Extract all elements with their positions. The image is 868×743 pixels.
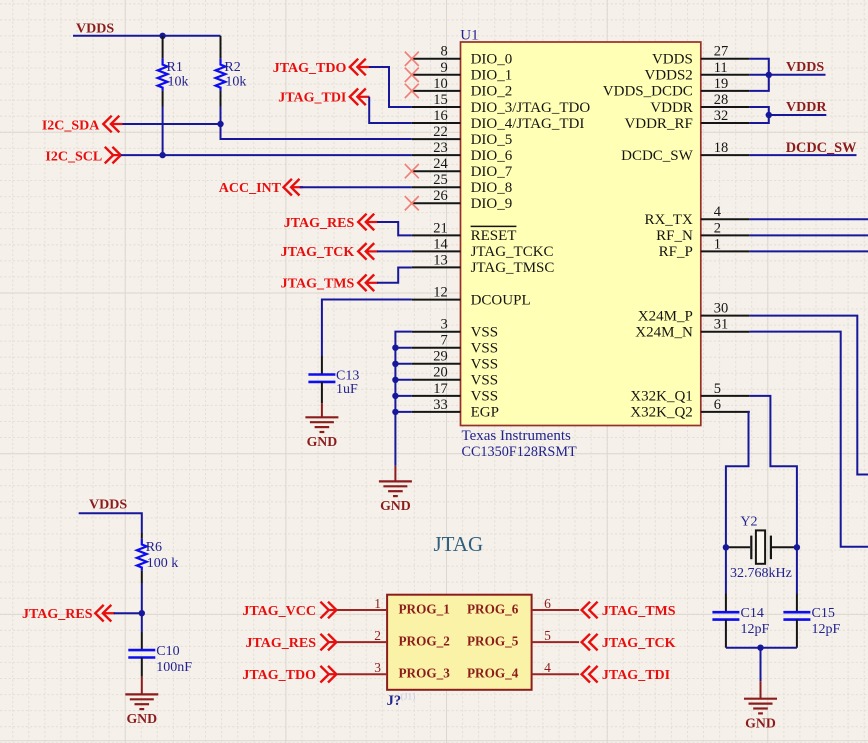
svg-text:17: 17 [433,381,448,397]
junction at R1 top [159,33,165,39]
wire VSS pin row 21 [395,395,411,397]
label C13 [336,368,359,383]
svg-text:VSS: VSS [471,389,499,405]
junction VDDR [766,112,772,118]
svg-text:1uF: 1uF [336,382,358,397]
svg-text:JTAG_TDI: JTAG_TDI [602,668,670,683]
svg-text:20: 20 [433,365,448,381]
svg-text:JTAG_TMS: JTAG_TMS [281,277,355,292]
wire R1 bottom to I2C_SCL net [162,107,164,156]
connector pin 1 PROG_1 (left) [337,596,450,616]
svg-text:VDDS: VDDS [786,60,824,75]
label Y2 [740,515,757,530]
svg-text:R1: R1 [167,60,183,75]
svg-text:VSS: VSS [471,357,499,373]
svg-text:JTAG_TCKC: JTAG_TCKC [471,244,554,260]
svg-text:DIO_4/JTAG_TDI: DIO_4/JTAG_TDI [471,116,585,132]
pin 29 VSS (left) [412,349,498,373]
op-amp U1 body (CC1350 MCU rectangle) [461,42,701,426]
ground below VSS bus [379,466,412,513]
wire X24M_P to right edge [750,316,868,475]
svg-text:JTAG_TMSC: JTAG_TMSC [471,260,555,276]
label C15 [812,606,835,621]
svg-text:RF_N: RF_N [656,228,693,244]
svg-text:DIO_3/JTAG_TDO: DIO_3/JTAG_TDO [471,100,591,116]
no-connect X on left pin row 1 [405,68,419,82]
pin 26 DIO_9 (left) [412,188,512,212]
svg-text:33: 33 [433,397,448,413]
wire VDDS to R6 [79,513,142,533]
svg-text:DIO_9: DIO_9 [471,196,513,212]
svg-text:18: 18 [714,140,729,156]
svg-text:DIO_8: DIO_8 [471,180,513,196]
port JTAG_RES (mid) [284,214,378,231]
svg-text:PROG_3: PROG_3 [399,666,451,681]
junction I2C_SDA / R2 [217,121,223,127]
wire I2C_SCL to pin 23 [121,154,412,156]
wire RF_P to edge [750,250,868,252]
wire R2 bottom to I2C_SDA net [220,107,222,125]
svg-text:VDDS: VDDS [76,22,114,37]
label R6 [146,540,162,555]
wire JTAG_TCK to pin 14 [377,250,412,252]
svg-text:JTAG_TDI: JTAG_TDI [278,91,346,106]
svg-text:GND: GND [126,711,157,726]
connector pin 2 PROG_2 (left) [337,628,450,648]
wire JTAG_RES to pin 21 [377,222,412,235]
svg-text:24: 24 [433,156,448,172]
svg-text:JTAG_VCC: JTAG_VCC [242,604,316,619]
power label DCDC_SW [786,140,857,156]
no-connect X on left pin row 9 [405,196,419,210]
label R2 [224,60,240,75]
pin 25 DIO_8 (left) [412,172,512,196]
svg-text:25: 25 [433,172,448,188]
svg-text:X32K_Q1: X32K_Q1 [630,389,693,405]
pin 21 RESET (left) [412,220,517,244]
port JTAG_TDO [273,59,370,76]
port JTAG_TMS [582,602,676,619]
label C14 [741,606,764,621]
wire VSS pin row 19 [395,363,411,365]
svg-text:JTAG_TDO: JTAG_TDO [273,61,347,76]
wire JTAG_TMS to pin 13 [377,267,412,282]
power label VDDR [786,100,827,115]
ground below C10 [125,677,158,726]
svg-text:JTAG_TCK: JTAG_TCK [281,245,355,260]
capacitor C15 [783,612,810,648]
wire RF_N to edge [750,234,868,236]
no-connect X on left pin row 2 [405,84,419,98]
svg-text:6: 6 [544,596,551,611]
power label VDDS (right) [786,60,824,75]
pin 28 VDDR (right) [650,92,749,116]
svg-text:11: 11 [714,60,728,76]
svg-text:32.768kHz: 32.768kHz [730,566,792,581]
svg-text:PROG_5: PROG_5 [467,634,519,649]
svg-text:13: 13 [433,252,448,268]
resistor R1 [158,36,168,107]
wire JTAG_TDI to pin 16 [369,97,412,123]
svg-text:JTAG_TDO: JTAG_TDO [242,668,316,683]
pin 6 X32K_Q2 (right) [630,397,749,421]
svg-text:DIO_2: DIO_2 [471,84,513,100]
svg-text:J?: J? [387,693,402,709]
label C10 [156,644,179,659]
pin 4 RX_TX (right) [644,204,749,228]
pin 10 DIO_2 (left) [412,76,512,100]
svg-text:I2C_SDA: I2C_SDA [42,118,100,133]
wire R6 to junction [141,583,143,613]
wire VSS bus vertical [395,332,411,466]
svg-text:19: 19 [714,76,729,92]
svg-text:32: 32 [714,108,729,124]
svg-text:2: 2 [374,628,381,643]
svg-text:14: 14 [433,236,448,252]
pin 16 DIO_4/JTAG_TDI (left) [412,108,585,132]
svg-text:VDDR: VDDR [650,100,693,116]
pin 7 VSS (left) [412,333,498,357]
svg-text:5: 5 [714,381,721,397]
svg-text:PROG_6: PROG_6 [467,601,519,616]
svg-text:VSS: VSS [471,341,499,357]
ground below C13 [305,403,338,449]
pin 30 X24M_P (right) [638,301,750,325]
svg-text:DCOUPL: DCOUPL [471,292,531,308]
wire ACC_INT to pin 25 [300,186,412,188]
svg-text:DIO_6: DIO_6 [471,148,513,164]
port JTAG_TCK [582,634,676,651]
pin 17 VSS (left) [412,381,498,405]
svg-text:VDDS: VDDS [652,52,693,68]
wire VSS pin row 18 [395,347,411,349]
svg-text:DIO_5: DIO_5 [471,132,513,148]
svg-text:22: 22 [433,124,448,140]
svg-text:Y2: Y2 [740,515,757,530]
connector pin 6 PROG_6 (right) [467,596,579,616]
svg-text:7: 7 [440,333,447,349]
svg-text:X24M_P: X24M_P [638,308,693,324]
svg-text:GND: GND [745,715,776,730]
pin 3 VSS (left) [412,317,498,341]
svg-text:C15: C15 [812,606,835,621]
wire VSS pin row 22 [395,411,411,413]
svg-text:10k: 10k [168,75,189,90]
svg-text:1: 1 [714,236,721,252]
svg-text:23: 23 [433,140,448,156]
svg-text:30: 30 [714,301,729,317]
svg-text:PROG_4: PROG_4 [467,666,519,681]
crystal Y2 [726,530,797,563]
svg-text:5: 5 [544,628,551,643]
pin 11 VDDS2 (right) [644,60,749,84]
ground below crystal caps [744,681,777,730]
wire DCOUPL pin 12 to C13 [322,300,412,356]
connector pin 5 PROG_5 (right) [467,628,579,648]
svg-text:2: 2 [714,220,721,236]
junction R6/C10/JTAG_RES [139,610,145,616]
power label VDDS (top left) [76,22,114,37]
svg-text:4: 4 [544,660,551,675]
port I2C_SCL [45,147,121,165]
port JTAG_TDI [278,89,369,106]
svg-text:JTAG_TMS: JTAG_TMS [602,604,676,619]
wire crystal right column down to C15 [796,547,798,612]
junction I2C_SCL / R1 [159,152,165,158]
capacitor C13 [308,356,335,403]
svg-text:27: 27 [714,44,729,60]
svg-text:9: 9 [440,60,447,76]
pin 19 VDDS_DCDC (right) [603,76,750,100]
svg-text:JTAG_RES: JTAG_RES [284,216,355,231]
svg-text:JTAG_RES: JTAG_RES [245,636,316,651]
label 10k (R1) [168,75,189,90]
wire VDDS cluster (pins 27/11/19) [750,59,826,91]
junction VDDS [766,72,772,78]
svg-text:4: 4 [714,204,722,220]
resistor R2 [216,36,226,107]
resistor R6 [137,533,147,583]
svg-text:100nF: 100nF [156,660,192,675]
svg-text:VDDS: VDDS [89,498,127,513]
label 10k (R2) [225,75,246,90]
svg-text:12pF: 12pF [741,622,770,637]
capacitor C10 [128,632,155,677]
no-connect X on left pin row 0 [405,52,419,66]
wire crystal left column down to C14 [725,547,727,612]
svg-text:RX_TX: RX_TX [644,212,693,228]
power label VDDS (bottom left) [89,498,127,513]
pin 24 DIO_7 (left) [412,156,513,180]
svg-text:VSS: VSS [471,373,499,389]
port JTAG_VCC [242,602,337,619]
junction VSS row 20 [392,377,398,383]
svg-text:PROG_1: PROG_1 [399,601,450,616]
wire I2C_SDA drop to pin 22 [221,124,412,139]
junction crystal left [723,544,729,550]
svg-text:U1: U1 [460,28,478,44]
svg-text:DIO_1: DIO_1 [471,68,513,84]
svg-text:JTAG_RES: JTAG_RES [22,607,93,622]
svg-text:DIO_0: DIO_0 [471,52,513,68]
label R1 [167,60,183,75]
wire X24M_N to right edge [750,332,868,547]
connector pin 4 PROG_4 (right) [467,660,579,680]
label 1uF [336,382,358,397]
svg-text:15: 15 [433,92,448,108]
capacitor C14 [712,612,739,648]
svg-text:DIO_7: DIO_7 [471,164,513,180]
junction crystal right [794,544,800,550]
designator U1 [460,28,478,44]
label 100nF [156,660,192,675]
svg-text:26: 26 [433,188,448,204]
svg-text:28: 28 [714,92,729,108]
svg-text:X24M_N: X24M_N [635,325,693,341]
svg-text:PROG_2: PROG_2 [399,634,451,649]
label 12pF (C14) [741,622,770,637]
label 12pF (C15) [812,622,841,637]
label 32.768kHz [730,566,792,581]
designator J? [387,692,416,710]
svg-text:10: 10 [433,76,448,92]
pin 31 X24M_N (right) [635,317,749,341]
wire VDDR cluster (pins 28/32) [750,107,827,123]
junction VSS row 18 [392,345,398,351]
svg-text:EGP: EGP [471,405,499,421]
pin 22 DIO_5 (left) [412,124,512,148]
wire VDDS horizontal [73,35,221,37]
svg-text:16: 16 [433,108,448,124]
svg-text:GND: GND [380,498,411,513]
svg-text:12: 12 [433,284,448,300]
svg-text:(J1): (J1) [401,692,416,703]
pin 5 X32K_Q1 (right) [630,381,749,405]
section title JTAG [434,532,484,556]
svg-text:31: 31 [714,317,729,333]
junction below crystal caps [757,645,763,651]
no-connect X on left pin row 7 [405,164,419,178]
svg-text:DCDC_SW: DCDC_SW [786,140,857,156]
port JTAG_RES (bottom left) [22,605,115,622]
pin 14 JTAG_TCKC (left) [412,236,554,260]
pin 33 EGP (left) [412,397,499,421]
connector J? body [387,595,531,690]
connector pin 3 PROG_3 (left) [337,660,450,680]
pin 13 JTAG_TMSC (left) [412,252,555,276]
svg-text:12pF: 12pF [812,622,841,637]
svg-text:GND: GND [307,434,338,449]
svg-text:3: 3 [440,317,447,333]
svg-text:X32K_Q2: X32K_Q2 [630,405,693,421]
junction VSS row 21 [392,393,398,399]
svg-text:R2: R2 [224,60,240,75]
pin 23 DIO_6 (left) [412,140,513,164]
part label Texas Instruments [462,428,572,444]
pin 32 VDDR_RF (right) [624,108,749,132]
port JTAG_TDI [582,666,671,683]
port I2C_SDA [42,116,123,134]
svg-text:DCDC_SW: DCDC_SW [621,148,694,164]
wire X32K_Q1 (pin 5) to crystal right column [750,396,797,547]
pin 9 DIO_1 (left) [412,60,512,84]
wire VSS pin row 20 [395,379,411,381]
svg-text:VDDS2: VDDS2 [644,68,692,84]
junction VSS row 22 [392,409,398,415]
junction VSS row 19 [392,361,398,367]
pin 12 DCOUPL (left) [412,284,531,308]
svg-text:VSS: VSS [471,325,499,341]
port JTAG_RES [245,634,337,651]
svg-text:VDDR: VDDR [786,100,827,115]
pin 2 RF_N (right) [656,220,750,244]
svg-text:JTAG: JTAG [434,532,484,556]
pin 18 DCDC_SW (right) [621,140,750,164]
wire JTAG_TDO to pin 15 [369,67,412,107]
port ACC_INT [219,179,303,196]
svg-text:I2C_SCL: I2C_SCL [45,149,102,164]
svg-text:ACC_INT: ACC_INT [219,181,282,196]
svg-text:1: 1 [374,596,381,611]
part label CC1350F128RSMT [462,444,577,460]
svg-text:R6: R6 [146,540,162,555]
wire JTAG_RES to junction [114,612,142,614]
svg-text:8: 8 [440,44,447,60]
svg-text:RESET: RESET [471,228,517,244]
svg-text:CC1350F128RSMT: CC1350F128RSMT [462,444,577,460]
port JTAG_TCK [281,243,378,260]
label 100 k [147,556,179,571]
svg-text:JTAG_TCK: JTAG_TCK [602,636,676,651]
svg-text:VDDS_DCDC: VDDS_DCDC [603,84,693,100]
port JTAG_TDO [242,666,337,683]
svg-text:29: 29 [433,349,448,365]
svg-text:21: 21 [433,220,448,236]
wire DCDC_SW [750,154,857,156]
svg-text:6: 6 [714,397,721,413]
wire I2C_SDA [123,123,221,125]
svg-text:3: 3 [374,660,381,675]
svg-text:10k: 10k [225,75,246,90]
pin 20 VSS (left) [412,365,498,389]
wire junction to C10 [141,613,143,632]
port JTAG_TMS [281,275,378,292]
pin 1 RF_P (right) [659,236,750,260]
pin 27 VDDS (right) [652,44,750,68]
svg-text:Texas Instruments: Texas Instruments [462,428,572,444]
wire C14/C15 common to ground [726,648,797,681]
svg-text:C14: C14 [741,606,764,621]
pin 8 DIO_0 (left) [412,44,512,68]
svg-text:C10: C10 [156,644,179,659]
svg-text:VDDR_RF: VDDR_RF [624,116,692,132]
wire RX_TX to edge [750,218,868,220]
pin 15 DIO_3/JTAG_TDO (left) [412,92,591,116]
svg-text:RF_P: RF_P [659,244,693,260]
wire X32K_Q2 (pin 6) to crystal left column [726,412,750,547]
svg-text:100 k: 100 k [147,556,179,571]
